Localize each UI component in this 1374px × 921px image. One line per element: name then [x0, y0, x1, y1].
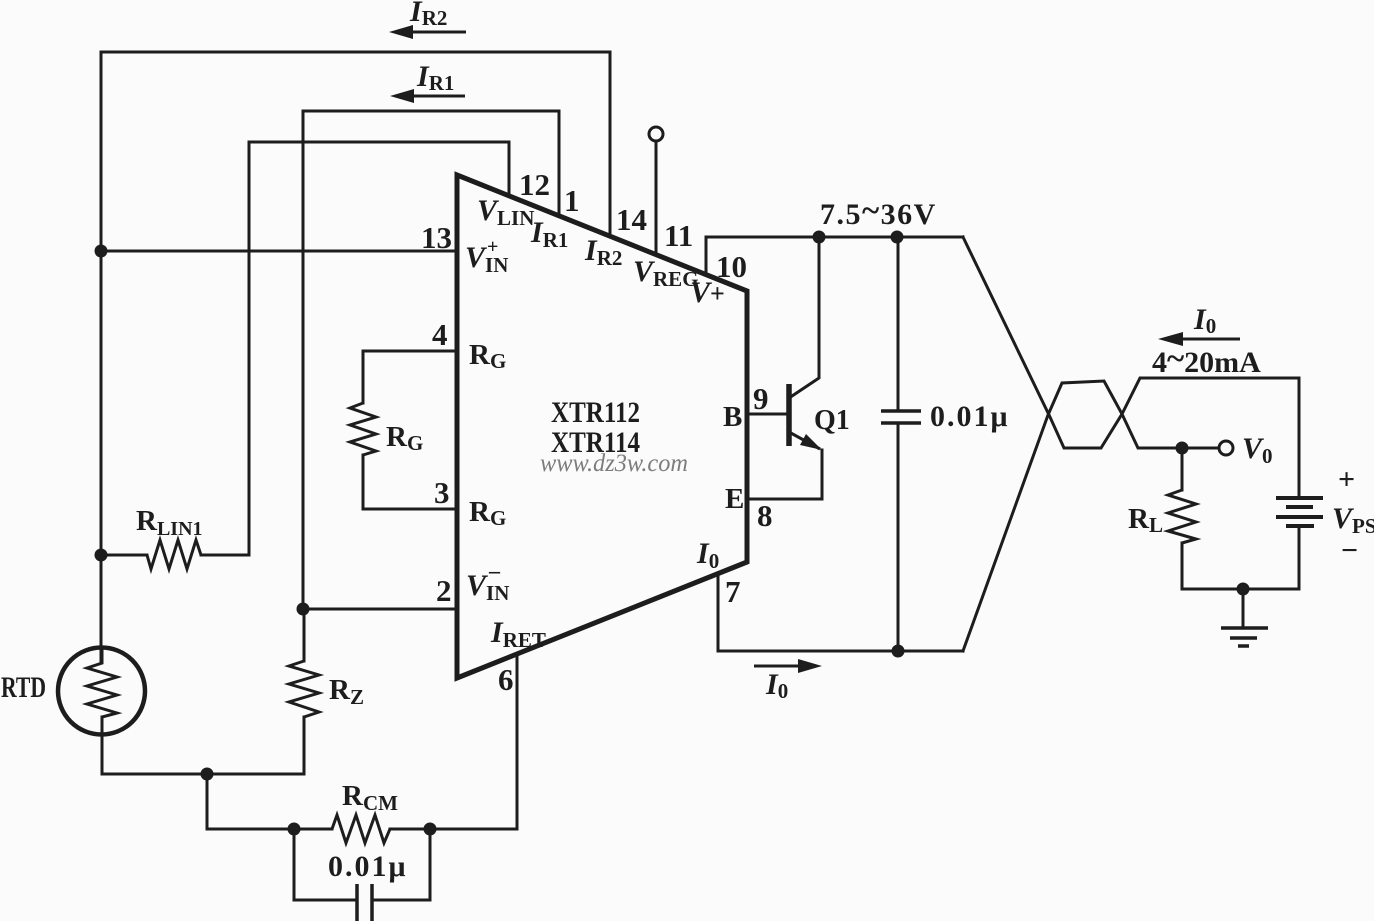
capacitor C1 0.01u plates (bottom) [357, 884, 372, 921]
node dot C2/rail [891, 231, 904, 244]
svg-text:9: 9 [753, 381, 769, 416]
wire RCM right to pin 6 drop [390, 828, 517, 831]
svg-text:E: E [725, 483, 744, 515]
svg-text:V+: V+ [690, 276, 725, 309]
terminal V0 output [1219, 441, 1233, 455]
svg-text:www.dz3w.com: www.dz3w.com [540, 450, 688, 477]
svg-text:4: 4 [432, 317, 448, 352]
svg-text:–: – [488, 558, 501, 583]
svg-text:−: − [1341, 534, 1358, 567]
svg-text:6: 6 [498, 662, 514, 697]
battery VPS plates [1276, 498, 1323, 526]
wire Q1 emitter down to pin 8 [747, 450, 822, 499]
wire node to RCM row [207, 774, 332, 829]
resistor RLIN1 zigzag [147, 540, 201, 569]
wire ground stem [1242, 589, 1245, 628]
svg-text:0.01μ: 0.01μ [930, 400, 1010, 433]
svg-text:4~20mA: 4~20mA [1152, 341, 1261, 379]
node dot pin13/left rail [95, 245, 108, 258]
arrow IR2 current [389, 25, 466, 39]
wire Q1 collector to rail [789, 237, 819, 398]
node dot RCM left [288, 823, 301, 836]
RTD sensor circle [58, 648, 145, 735]
svg-text:RTD: RTD [1, 671, 46, 704]
node dot RZ/pin2 [297, 603, 310, 616]
wire pin 7 drop and bottom rail [718, 573, 963, 651]
resistor RG zigzag [350, 403, 376, 455]
wire C2 top stem [897, 237, 900, 410]
wire CCM right branch [374, 829, 430, 900]
wire RLIN1 left stub from node [101, 554, 147, 557]
svg-text:+: + [487, 236, 498, 258]
arrow IR1 current [390, 89, 465, 103]
wire pin 9 to Q1 base [747, 413, 789, 416]
wire pin 4 to RG top [363, 351, 457, 403]
svg-text:14: 14 [616, 202, 647, 237]
wire twisted pair upper conductor [963, 237, 1299, 498]
svg-text:8: 8 [757, 498, 773, 533]
arrow I0 bottom [754, 659, 822, 673]
resistor RZ zigzag [289, 661, 319, 717]
node dot RLIN1/left rail [95, 549, 108, 562]
arrow I0 top right [1158, 332, 1240, 346]
svg-text:2: 2 [436, 573, 452, 608]
wire pin 6 vertical [516, 654, 519, 829]
node dot ground junction [1237, 583, 1250, 596]
wire RL stems [1181, 448, 1184, 589]
svg-text:7: 7 [725, 574, 741, 609]
wire twisted pair lower conductor [963, 381, 1219, 651]
capacitor C2 0.01u plates [881, 411, 921, 423]
resistor RL zigzag [1168, 490, 1196, 543]
svg-text:13: 13 [421, 220, 452, 255]
wire C2 bottom stem [897, 424, 900, 651]
wire bottom right rail [1182, 588, 1299, 591]
node dot bottom left junction [201, 768, 214, 781]
node dot RCM right [424, 823, 437, 836]
wire pin 3 to RG bottom [363, 455, 457, 509]
wire RZ stems [303, 609, 306, 774]
wire pin 11 from terminal [655, 142, 658, 255]
ground symbol [1221, 628, 1268, 646]
svg-text:12: 12 [519, 167, 550, 202]
svg-text:XTR112: XTR112 [551, 396, 640, 429]
wire battery bottom stem [1298, 526, 1301, 589]
wire pin 13 to left rail [101, 250, 457, 253]
wire IR1 loop: from RZ node up, across, down to pin 1 [303, 111, 559, 609]
node dot C2/bottom rail [892, 645, 905, 658]
terminal at pin 11 VREG [649, 127, 663, 141]
svg-text:11: 11 [664, 218, 693, 253]
wire pin 10 riser and supply rail [706, 237, 963, 275]
svg-text:1: 1 [564, 183, 580, 218]
transistor Q1 [789, 384, 822, 450]
svg-text:Q1: Q1 [814, 405, 850, 436]
node dot V0/RL [1176, 442, 1189, 455]
svg-text:B: B [723, 401, 742, 433]
wire loop to pin 12 from RLIN1 right end [201, 142, 509, 555]
wire CCM left branch [294, 829, 355, 900]
node dot Q1 collector/rail [813, 231, 826, 244]
svg-text:3: 3 [434, 475, 450, 510]
svg-text:7.5~36V: 7.5~36V [820, 193, 937, 231]
wire pin 2 to RZ node [303, 608, 457, 611]
resistor RCM zigzag [332, 815, 390, 843]
wire RTD bottom to RZ bottom [102, 717, 304, 774]
wire outer IR2 loop: left vertical, top horizontal, down to pin 14 [101, 52, 610, 663]
svg-text:+: + [1338, 463, 1355, 496]
svg-text:0.01μ: 0.01μ [328, 850, 408, 883]
op-amp U1 XTR112/XTR114 body [457, 175, 747, 678]
